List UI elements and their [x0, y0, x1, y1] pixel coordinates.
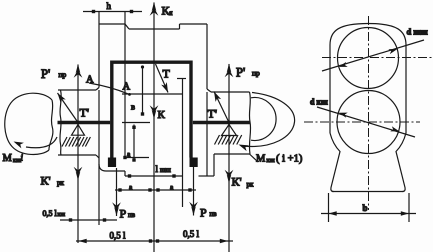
right shaft axis thick bar: [193, 121, 250, 124]
left support triangle: [72, 125, 85, 136]
wavy broken edge of left blob: [49, 100, 53, 150]
dimension l shsh line y=176: [125, 175, 183, 177]
horizontal centerline pin: [322, 57, 432, 59]
svg-text:пр: пр: [252, 69, 260, 78]
svg-text:Т': Т': [80, 106, 90, 120]
web outline right side: [405, 45, 407, 133]
svg-text:К: К: [158, 109, 166, 121]
dimension d shsh diagonal: [322, 40, 424, 71]
svg-text:пр: пр: [59, 70, 67, 79]
left support hatching: [62, 137, 90, 147]
tick at top of x=182.5: [177, 78, 186, 80]
svg-text:рк: рк: [247, 181, 255, 189]
dimension v vertical line with dot: [142, 67, 144, 114]
svg-text:М: М: [3, 153, 13, 164]
svg-text:0,5 l: 0,5 l: [43, 209, 58, 218]
reference line y=157.5: [125, 157, 149, 159]
web outline right neck and base flare: [396, 133, 406, 192]
left shaft break squiggle: [60, 90, 61, 155]
force arrow K'rk right: [225, 170, 234, 184]
dimension d ksh diagonal: [317, 107, 415, 137]
svg-text:d кш: d кш: [310, 98, 328, 107]
web base bottom: [333, 191, 404, 193]
svg-text:шш: шш: [160, 166, 171, 174]
svg-text:Р': Р': [41, 67, 50, 81]
left support vertical force line x=78: [77, 65, 79, 244]
right crank circle (next web): [251, 98, 276, 141]
left shaft axis thick bar: [58, 121, 111, 124]
svg-text:Р': Р': [236, 66, 245, 80]
dimension b line: [321, 213, 416, 215]
right shaft break squiggle: [249, 92, 250, 154]
right pin-end foot: [190, 158, 198, 168]
wire x=214 right web outer lower: [213, 154, 215, 176]
svg-text:М: М: [256, 154, 266, 165]
right support hatching: [215, 135, 242, 145]
svg-text:кш: кш: [267, 157, 275, 164]
dimension 0.5 lksh line y=220: [60, 219, 117, 221]
web outline left side: [329, 45, 331, 133]
force arrow K'rk left (down): [74, 167, 83, 181]
leader from label A: [89, 83, 129, 94]
left main journal circle (broken web blob): [5, 93, 52, 154]
left journal bottom edge: [58, 154, 96, 156]
dimension 0.5l line y=241: [76, 240, 233, 242]
horizontal centerline journal: [304, 121, 420, 123]
web outline left neck and base flare: [330, 133, 340, 192]
left web bottom outline y=171: [99, 164, 125, 171]
dimension h line: [83, 11, 142, 13]
moment arrow M ksh i (curved): [26, 137, 57, 148]
dimension a vertical x=134: [133, 125, 135, 161]
svg-text:А: А: [123, 82, 131, 93]
svg-text:Т': Т': [208, 107, 218, 121]
svg-text:0,5 l: 0,5 l: [110, 231, 127, 241]
svg-text:h: h: [107, 1, 112, 11]
force arrow Ppv left: [116, 168, 118, 216]
svg-text:Р: Р: [200, 206, 207, 220]
svg-text:d шш: d шш: [407, 27, 428, 37]
dimension b extension lines: [328, 193, 330, 222]
force arrow T' right diagonal: [214, 92, 229, 123]
svg-text:пв: пв: [128, 211, 136, 219]
force arrow P'pr left (up): [74, 64, 83, 78]
force arrow T' left diagonal: [58, 93, 79, 123]
section line A level y=94: [122, 93, 183, 95]
right support force line x=229: [228, 64, 230, 252]
right support triangle: [222, 125, 237, 136]
dimension a horizontal line y=190: [115, 189, 196, 191]
svg-text:А: А: [86, 75, 94, 86]
svg-text:в: в: [131, 102, 135, 112]
leader to M label: [250, 154, 259, 162]
wire: right web outer face x=207: [206, 24, 208, 89]
step up at x=179.5: [179, 24, 181, 29]
svg-text:К': К': [41, 174, 51, 188]
top outline of right web y=24: [180, 23, 208, 25]
svg-text:кш: кш: [58, 212, 66, 218]
web outline top arc: [330, 24, 406, 46]
wire: inner face right web x=182.5: [182, 79, 184, 208]
crank pin thick rectangle: [112, 62, 191, 157]
right web bottom outline y=176: [199, 175, 215, 177]
main journal circle d ksh: [337, 91, 400, 154]
svg-text:0,5 l: 0,5 l: [183, 229, 200, 239]
force arrow T (diagonal inside pin): [156, 64, 169, 93]
left pin-end foot: [108, 158, 116, 168]
right journal top edge: [207, 89, 211, 92]
left journal top edge: [58, 89, 96, 91]
moment arrow M ksh i+1 (curved): [243, 93, 295, 147]
svg-text:Т: Т: [163, 67, 171, 81]
top outline of left web y=24: [99, 23, 125, 25]
top outline center y=29: [129, 28, 180, 30]
pin bottom reference line y=122.5: [122, 122, 150, 124]
force arrow Kya (center vertical line x=154): [153, 3, 155, 252]
svg-text:b: b: [363, 203, 368, 213]
chamfer at x=125 top: [125, 24, 129, 29]
svg-text:Р: Р: [120, 207, 127, 221]
force arrow P'pr right: [225, 64, 234, 78]
wire: extension line left web outer face x=99: [98, 11, 100, 88]
right journal bottom edge: [214, 153, 250, 155]
svg-text:я: я: [169, 8, 173, 17]
force arrow K double head on center line: [150, 105, 159, 119]
svg-text:( i +1): ( i +1): [276, 154, 303, 165]
svg-text:рк: рк: [57, 179, 65, 187]
svg-text:пв: пв: [210, 210, 218, 218]
svg-text:К': К': [232, 175, 242, 189]
crank pin circle d shsh: [338, 28, 399, 89]
vertical centerline: [368, 16, 370, 210]
force arrow Ppv right: [193, 167, 195, 216]
wire: extension line left web inner face x=125: [124, 11, 126, 158]
